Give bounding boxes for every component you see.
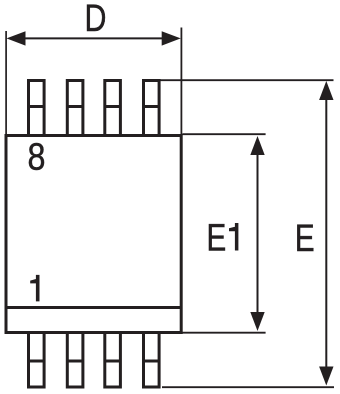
dimension E extension line bottom [162,386,334,388]
pin 8 lead (top row, leftmost) [29,81,45,136]
dimension D extension line right [180,28,182,135]
package body outline [6,136,181,333]
dimension E extension line top [160,79,333,81]
dimension E1 extension line bottom [183,332,266,334]
svg-text:E: E [207,217,227,259]
dimension E1 arrowhead bottom [250,312,264,331]
pin-1 end inner line [6,306,181,309]
svg-text:8: 8 [28,136,46,178]
dimension D extension line left [5,31,7,134]
dimension E arrowhead bottom [319,367,333,386]
dimension E arrowhead top [319,81,333,100]
dimension E1 arrow line [257,140,259,327]
dimension D arrow line [10,37,177,39]
svg-text:E: E [295,218,315,260]
dimension D arrowhead right [162,31,181,45]
pin 1 number label [30,275,39,302]
pin 7 lead (top row) [67,81,83,136]
svg-text:D: D [85,0,107,40]
pin 6 lead (top row) [105,81,121,136]
pin 4 lead (bottom row, rightmost) [144,333,160,387]
dimension E1 extension line top [183,133,266,135]
pin 3 lead (bottom row) [105,333,121,387]
pin 5 lead (top row, rightmost) [144,81,160,136]
dimension D arrowhead left [7,31,26,45]
pin 1 lead (bottom row, leftmost) [29,333,45,387]
pin 2 lead (bottom row) [67,333,83,387]
dimension E1 arrowhead top [250,136,264,155]
dimension E arrow line [325,85,327,381]
